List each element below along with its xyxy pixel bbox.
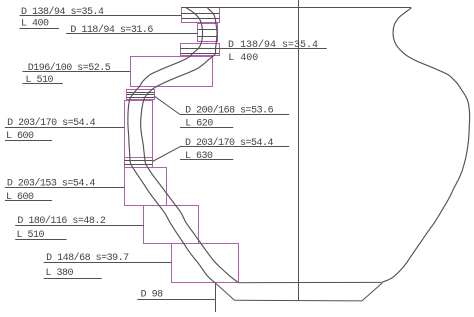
ring R2 rect	[198, 24, 218, 42]
wall outer curve	[128, 8, 215, 283]
svg-text:L 400: L 400	[21, 18, 49, 29]
ring R8 rect	[172, 244, 239, 283]
ring R1 glue lines	[181, 13, 219, 15]
ring R4 rect	[131, 57, 213, 87]
svg-text:L 510: L 510	[26, 75, 54, 86]
ring R2 glue lines	[197, 29, 218, 31]
ring A band rect	[127, 90, 155, 100]
svg-text:D 203/170 s=54.4: D 203/170 s=54.4	[185, 137, 274, 149]
ring A glue lines	[127, 92, 154, 94]
vase outer profile right	[382, 8, 470, 283]
svg-text:D 138/94 s=35.4: D 138/94 s=35.4	[21, 6, 104, 18]
ring B glue lines	[124, 160, 152, 162]
leader to ring A	[154, 96, 180, 114]
leader to ring B	[153, 147, 181, 162]
svg-text:L 630: L 630	[185, 151, 213, 162]
base chamfer right	[362, 283, 382, 301]
base inner bottom line	[239, 281, 382, 283]
ring R1 rect	[182, 8, 220, 23]
foot edge vertical	[215, 283, 217, 312]
ring R3 rect	[181, 44, 220, 56]
centerline	[298, 0, 300, 300]
ring R3 glue lines	[180, 48, 219, 50]
rim line	[181, 7, 411, 9]
svg-text:L 600: L 600	[6, 192, 34, 203]
svg-text:D 98: D 98	[141, 290, 164, 301]
ring R7 rect	[144, 206, 199, 244]
ring R5 rect	[125, 101, 153, 158]
wall inner curve	[141, 8, 239, 283]
svg-text:L 380: L 380	[46, 268, 74, 279]
ring B band rect	[125, 158, 153, 168]
base bottom line	[235, 299, 363, 302]
ring R6 rect	[125, 168, 167, 206]
svg-text:L 400: L 400	[228, 53, 258, 64]
base chamfer left	[215, 283, 234, 300]
